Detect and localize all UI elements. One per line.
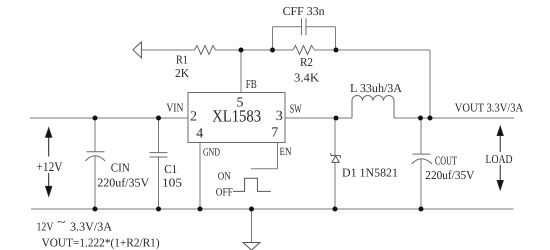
svg-text:CFF 33n: CFF 33n bbox=[283, 4, 325, 18]
svg-text:VOUT=1.222*(1+R2/R1): VOUT=1.222*(1+R2/R1) bbox=[42, 236, 160, 250]
svg-text:L 33uh/3A: L 33uh/3A bbox=[350, 81, 402, 95]
svg-text:VIN: VIN bbox=[166, 101, 183, 115]
svg-text:2K: 2K bbox=[175, 66, 189, 80]
svg-text:3: 3 bbox=[276, 109, 283, 124]
svg-text:COUT: COUT bbox=[435, 154, 457, 168]
svg-text:ON: ON bbox=[218, 171, 231, 183]
svg-text:R1: R1 bbox=[176, 53, 188, 67]
svg-text:3.4K: 3.4K bbox=[294, 71, 319, 85]
svg-text:7: 7 bbox=[271, 126, 278, 141]
svg-text:+12V: +12V bbox=[37, 159, 64, 174]
svg-text:C1: C1 bbox=[164, 162, 177, 176]
svg-text:220uf/35V: 220uf/35V bbox=[97, 176, 149, 190]
svg-text:2: 2 bbox=[190, 110, 197, 125]
svg-text:D1 1N5821: D1 1N5821 bbox=[342, 166, 398, 180]
svg-text:SW: SW bbox=[290, 102, 302, 116]
svg-text:FB: FB bbox=[246, 77, 257, 91]
svg-text:~: ~ bbox=[57, 215, 66, 229]
svg-text:4: 4 bbox=[196, 127, 203, 142]
svg-text:12V: 12V bbox=[37, 219, 54, 233]
svg-text:3.3V/3A: 3.3V/3A bbox=[70, 219, 112, 233]
svg-text:R2: R2 bbox=[300, 55, 313, 69]
svg-text:CIN: CIN bbox=[111, 160, 130, 174]
svg-text:LOAD: LOAD bbox=[486, 152, 513, 166]
svg-text:XL1583: XL1583 bbox=[212, 107, 261, 126]
svg-text:VOUT 3.3V/3A: VOUT 3.3V/3A bbox=[455, 100, 524, 114]
svg-text:EN: EN bbox=[280, 146, 292, 158]
svg-text:OFF: OFF bbox=[216, 187, 233, 199]
svg-text:GND: GND bbox=[203, 147, 220, 159]
svg-text:220uf/35V: 220uf/35V bbox=[425, 168, 474, 182]
svg-text:105: 105 bbox=[162, 176, 182, 190]
